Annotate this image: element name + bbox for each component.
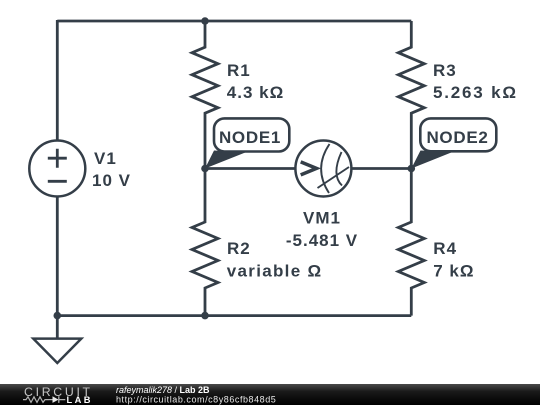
svg-text:NODE2: NODE2 — [426, 128, 488, 147]
junction node2 — [408, 165, 416, 173]
svg-text:7 kΩ: 7 kΩ — [433, 261, 474, 280]
voltage source V1 — [29, 141, 85, 197]
footer credit text — [116, 385, 276, 404]
svg-text:LAB: LAB — [67, 395, 93, 405]
svg-text:-5.481 V: -5.481 V — [286, 231, 358, 250]
voltmeter VM1 — [295, 141, 351, 197]
node flag NODE2 — [411, 118, 496, 168]
wire top rail — [57, 20, 411, 23]
label R1 4.3 kOhm — [227, 61, 284, 102]
svg-text:R2: R2 — [227, 239, 251, 258]
label V1 10 V — [92, 149, 131, 190]
label R3 5.263 kOhm — [433, 61, 518, 102]
label R2 variable — [227, 239, 323, 280]
wire VM left — [205, 167, 296, 170]
resistor R3 — [398, 21, 424, 169]
wire VM right — [352, 167, 412, 170]
svg-text:R3: R3 — [433, 61, 457, 80]
wire bottom rail — [57, 314, 411, 317]
label VM1 value — [286, 209, 358, 251]
svg-text:variable Ω: variable Ω — [227, 261, 323, 280]
svg-text:4.3 kΩ: 4.3 kΩ — [227, 83, 284, 102]
ground — [33, 316, 81, 363]
svg-text:R1: R1 — [227, 61, 251, 80]
node flag NODE1 — [205, 118, 289, 168]
svg-text:5.263 kΩ: 5.263 kΩ — [433, 83, 518, 102]
junction bottom node — [201, 312, 209, 320]
label R4 7 kOhm — [433, 239, 474, 280]
svg-text:http://circuitlab.com/c8y86cfb: http://circuitlab.com/c8y86cfb848d5 — [116, 394, 276, 404]
resistor R2 — [192, 169, 218, 316]
svg-text:R4: R4 — [433, 239, 457, 258]
CircuitLab logo — [23, 385, 93, 405]
junction top node — [201, 17, 209, 25]
svg-text:V1: V1 — [94, 149, 117, 168]
svg-text:NODE1: NODE1 — [219, 128, 281, 147]
resistor R4 — [398, 169, 424, 316]
svg-text:10 V: 10 V — [92, 171, 131, 190]
junction ground node — [54, 312, 62, 320]
wire left lower — [56, 196, 59, 316]
resistor R1 — [192, 21, 218, 169]
svg-text:VM1: VM1 — [303, 209, 341, 228]
wire left upper — [56, 20, 59, 141]
footer bar — [0, 384, 540, 405]
junction node1 — [201, 165, 209, 173]
